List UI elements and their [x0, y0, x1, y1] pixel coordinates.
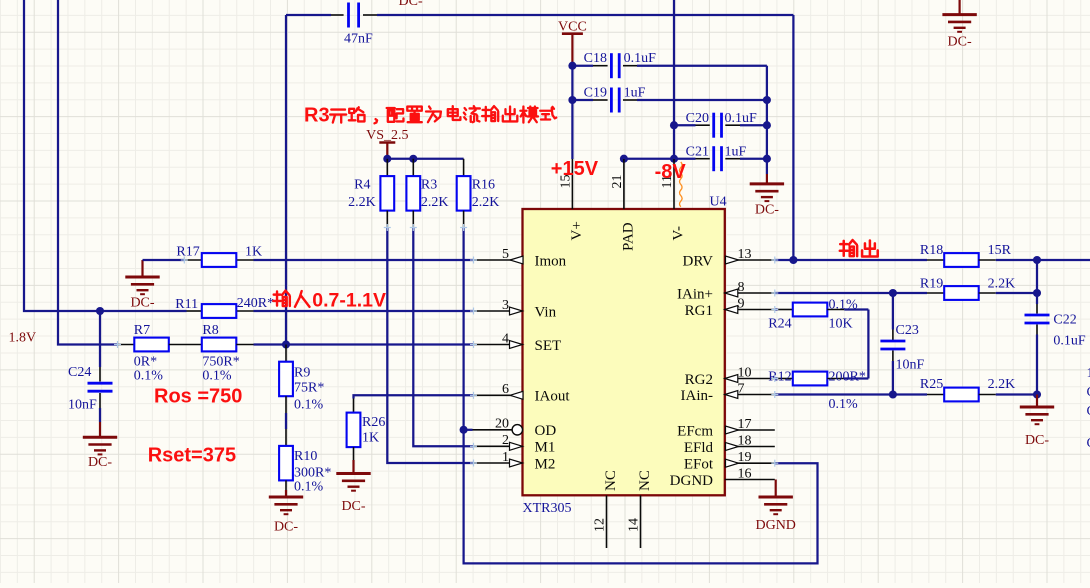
junction VS rail at R3	[409, 155, 417, 163]
ground DC- top right	[942, 0, 976, 50]
svg-text:DC-: DC-	[399, 0, 423, 9]
svg-text:R9: R9	[294, 366, 310, 381]
svg-text:1.8V: 1.8V	[9, 331, 37, 346]
svg-text:DC-: DC-	[755, 203, 779, 218]
svg-text:R19: R19	[920, 276, 943, 291]
svg-text:OD: OD	[535, 423, 557, 439]
svg-text:R26: R26	[362, 415, 385, 430]
svg-text:R16: R16	[472, 178, 495, 193]
annotation output	[840, 240, 878, 256]
annotation -8V	[655, 161, 687, 183]
svg-text:SET: SET	[535, 338, 562, 354]
resistor R7 0R* 0.1%	[118, 323, 202, 384]
wire R4 to M2 pin	[387, 228, 473, 464]
svg-text:9: 9	[738, 296, 745, 311]
wire top net from 47nF to output column	[286, 14, 793, 16]
svg-text:IAin-: IAin-	[681, 388, 714, 404]
pin 12 NC	[593, 470, 619, 548]
svg-text:C24: C24	[68, 365, 91, 380]
resistor R4 2.2K	[348, 159, 394, 228]
svg-text:IAout: IAout	[535, 389, 571, 405]
svg-text:240R*: 240R*	[237, 296, 274, 311]
ground DC- below C24	[83, 422, 117, 470]
svg-text:5: 5	[502, 247, 509, 262]
pin 16 DGND	[670, 466, 775, 489]
resistor R18 15R	[920, 243, 1012, 267]
svg-text:XTR305: XTR305	[523, 501, 572, 516]
annotation Ros	[154, 386, 242, 408]
svg-text:R25: R25	[920, 377, 943, 392]
svg-text:2.2K: 2.2K	[421, 195, 449, 210]
junction OD row	[460, 426, 468, 434]
junction at SET row and R9	[282, 340, 290, 348]
capacitor C18 0.1uF	[572, 51, 767, 78]
svg-text:+15V: +15V	[551, 158, 599, 180]
junction IAin- C23 R25	[889, 390, 897, 398]
junction C19 right	[763, 96, 771, 104]
svg-text:DC-: DC-	[1025, 433, 1049, 448]
svg-text:R24: R24	[768, 317, 791, 332]
svg-text:2: 2	[502, 433, 509, 448]
pin 13 DRV	[683, 247, 775, 270]
svg-text:C20: C20	[686, 111, 709, 126]
junction C20 left	[670, 121, 678, 129]
pin 10 RG2	[685, 365, 775, 388]
svg-text:V+: V+	[569, 221, 585, 240]
svg-text:200R*: 200R*	[829, 369, 866, 384]
wire Imon row to pin 5	[254, 259, 474, 261]
wire IAin+ row	[775, 292, 893, 294]
wire V+ supply vertical	[571, 66, 573, 159]
svg-text:0.7-1.1V: 0.7-1.1V	[312, 289, 386, 311]
svg-text:2.2K: 2.2K	[988, 377, 1016, 392]
junction C21 left V-	[670, 155, 678, 163]
pin 15 V+	[559, 159, 585, 241]
ground DC- below R10	[269, 490, 303, 535]
svg-text:U4: U4	[710, 195, 727, 210]
wire SET row to pin 4	[254, 343, 474, 345]
junction VS rail at R4	[383, 155, 391, 163]
svg-text:DC-: DC-	[274, 520, 298, 535]
pin 5 Imon	[474, 247, 567, 270]
svg-text:DGND: DGND	[755, 518, 795, 533]
wire V- vertical from top	[673, 0, 675, 159]
annotation input range	[273, 289, 386, 311]
svg-text:20: 20	[495, 417, 509, 432]
svg-text:0.1uF: 0.1uF	[725, 111, 758, 126]
svg-text:0.1%: 0.1%	[829, 298, 859, 313]
svg-text:C22: C22	[1053, 313, 1076, 328]
ground DGND	[755, 480, 795, 534]
svg-text:R11: R11	[175, 297, 198, 312]
pin 17 EFcm	[677, 417, 775, 440]
junction VCC C18	[568, 62, 576, 70]
pin 18 EFld	[684, 433, 775, 456]
resistor R8 750R* 0.1%	[202, 323, 254, 384]
ground DC- decoupling block	[750, 174, 784, 218]
svg-text:16: 16	[738, 466, 752, 481]
power port DC- (top center, clipped)	[399, 0, 423, 9]
svg-text:750R*: 750R*	[202, 355, 239, 370]
pin 19 EFot	[684, 450, 775, 473]
svg-text:0.1%: 0.1%	[294, 398, 324, 413]
svg-text:DC-: DC-	[88, 455, 112, 470]
pin end markers	[114, 224, 778, 467]
op-amp U4 XTR305 body	[523, 195, 727, 517]
error squiggle at V- pin	[680, 162, 683, 207]
capacitor C22 0.1uF	[1025, 260, 1086, 395]
svg-text:DC-: DC-	[341, 499, 365, 514]
svg-text:1: 1	[502, 450, 509, 465]
junction C21 PAD	[620, 155, 628, 163]
svg-text:PAD: PAD	[620, 222, 636, 251]
resistor R3 2.2K	[406, 159, 448, 228]
svg-text:R17: R17	[176, 244, 199, 259]
svg-text:C: C	[1087, 436, 1090, 451]
svg-text:V-: V-	[671, 226, 687, 240]
svg-text:R3: R3	[304, 105, 330, 127]
svg-text:RG2: RG2	[685, 372, 713, 388]
svg-text:Ros =750: Ros =750	[154, 386, 242, 408]
svg-text:1uF: 1uF	[624, 85, 646, 100]
resistor R9 75R* 0.1%	[279, 345, 324, 430]
capacitor C24 10nF	[68, 365, 113, 422]
svg-text:1K: 1K	[245, 244, 262, 259]
svg-text:C21: C21	[686, 144, 709, 159]
resistor R16 2.2K	[457, 159, 500, 228]
annotation R3 open-circuit note	[304, 105, 556, 127]
resistor R17 1K	[176, 244, 262, 267]
svg-text:C19: C19	[584, 85, 607, 100]
capacitor C1 47nF	[331, 3, 377, 47]
svg-text:10nF: 10nF	[68, 398, 97, 413]
svg-text:DGND: DGND	[670, 473, 713, 489]
wire left vertical 2 to R7 row	[58, 0, 118, 345]
svg-text:7: 7	[738, 381, 745, 396]
svg-text:IAin+: IAin+	[677, 286, 713, 302]
capacitor C21 1uF	[624, 144, 767, 171]
junction C19 V+	[568, 96, 576, 104]
svg-text:2.2K: 2.2K	[348, 195, 376, 210]
wire VS_2.5 rail	[387, 158, 463, 160]
junction C20 right	[763, 121, 771, 129]
pin 20 OD	[473, 417, 557, 440]
wire IAout row	[354, 395, 474, 398]
svg-text:47nF: 47nF	[344, 32, 373, 47]
junction DRV output column	[789, 256, 797, 264]
svg-text:M1: M1	[535, 440, 556, 456]
wire IAin- row	[775, 393, 927, 395]
svg-text:12: 12	[593, 518, 608, 532]
svg-text:3: 3	[502, 298, 509, 313]
svg-text:R8: R8	[202, 323, 218, 338]
svg-text:R12: R12	[768, 369, 791, 384]
ground DC- right	[1020, 395, 1054, 449]
capacitor C23 10nF	[880, 293, 924, 395]
pin 14 NC	[627, 470, 653, 548]
svg-text:DC-: DC-	[948, 35, 972, 50]
wire output to right edge	[996, 259, 1090, 261]
svg-text:EFld: EFld	[684, 440, 714, 456]
svg-text:0.1%: 0.1%	[134, 369, 164, 384]
svg-text:M2: M2	[535, 456, 556, 472]
resistor R11 240R*	[175, 296, 274, 318]
wire R16 to OD pin and EFot loop	[464, 228, 818, 564]
svg-text:2.2K: 2.2K	[988, 276, 1016, 291]
resistor R26 1K	[347, 399, 386, 461]
svg-text:0R*: 0R*	[134, 355, 157, 370]
junction output R19 column	[1033, 256, 1041, 264]
wire 47nF-net vertical to SET junction	[285, 15, 287, 345]
svg-text:1: 1	[1087, 366, 1090, 381]
resistor R19 2.2K	[893, 276, 1037, 300]
svg-text:VCC: VCC	[558, 20, 587, 35]
svg-text:14: 14	[627, 518, 642, 532]
svg-text:R10: R10	[294, 449, 317, 464]
svg-text:R7: R7	[134, 323, 150, 338]
svg-text:C: C	[1087, 385, 1090, 400]
svg-text:C18: C18	[584, 51, 607, 66]
wire R24 R12 link	[867, 310, 869, 379]
svg-text:C: C	[1087, 404, 1090, 419]
pin 6 IAout	[474, 382, 571, 405]
clipped text fragments right edge	[1087, 366, 1090, 451]
svg-text:0.1uF: 0.1uF	[1053, 334, 1086, 349]
svg-text:2.2K: 2.2K	[472, 195, 500, 210]
svg-text:6: 6	[502, 382, 509, 397]
resistor R10 300R* 0.1%	[279, 429, 331, 495]
junction C21 right	[763, 155, 771, 163]
junction R19 C22	[1033, 289, 1041, 297]
svg-text:R3: R3	[421, 178, 437, 193]
svg-text:1uF: 1uF	[725, 144, 747, 159]
pin 7 IAin-	[681, 381, 775, 404]
wire DRV row	[775, 259, 927, 261]
svg-text:0.1%: 0.1%	[294, 480, 324, 495]
pin 8 IAin+	[677, 280, 775, 303]
capacitor C19 1uF	[572, 85, 767, 112]
wire OD row stub	[464, 429, 473, 431]
svg-text:75R*: 75R*	[294, 381, 324, 396]
resistor R24 10K 0.1%	[768, 298, 868, 332]
svg-text:15R: 15R	[988, 243, 1012, 258]
svg-text:18: 18	[738, 433, 752, 448]
svg-text:0.1uF: 0.1uF	[624, 51, 657, 66]
svg-text:10K: 10K	[829, 317, 853, 332]
pin 3 Vin	[474, 298, 557, 321]
svg-text:19: 19	[738, 450, 752, 465]
svg-text:EFcm: EFcm	[677, 423, 713, 439]
power port VCC	[558, 20, 587, 66]
power port VS_2.5	[366, 128, 408, 159]
svg-text:21: 21	[610, 175, 625, 189]
svg-text:C23: C23	[896, 323, 919, 338]
junction at R11 row and C24 branch	[96, 307, 104, 315]
svg-text:10nF: 10nF	[896, 358, 925, 373]
svg-text:NC: NC	[637, 470, 653, 491]
svg-text:NC: NC	[603, 470, 619, 491]
svg-text:0.1%: 0.1%	[202, 369, 232, 384]
svg-text:DRV: DRV	[683, 253, 714, 269]
wire left vertical 1 to R11 row	[24, 0, 187, 311]
svg-text:R4: R4	[354, 178, 370, 193]
svg-text:DC-: DC-	[130, 296, 154, 311]
resistor R25 2.2K	[920, 377, 1037, 402]
svg-text:VS_2.5: VS_2.5	[366, 128, 408, 143]
pin 2 M1	[474, 433, 556, 456]
svg-text:1K: 1K	[362, 431, 379, 446]
svg-text:EFot: EFot	[684, 457, 714, 473]
wire R3 to M1 pin	[413, 228, 473, 447]
svg-text:17: 17	[738, 417, 752, 432]
svg-text:0.1%: 0.1%	[829, 397, 859, 412]
pin 4 SET	[474, 331, 562, 354]
annotation +15V	[551, 158, 599, 180]
junction IAin+ C23 R19	[889, 289, 897, 297]
pin 1 M2	[474, 450, 556, 473]
wire decoupling right vertical	[766, 66, 768, 174]
svg-text:300R*: 300R*	[294, 466, 331, 481]
ground DC- below R26	[336, 460, 370, 514]
svg-text:Rset=375: Rset=375	[148, 445, 236, 467]
pin 11 V-	[660, 159, 686, 241]
wire Imon row left segment	[143, 259, 185, 261]
junction R25 C22 ground	[1033, 390, 1041, 398]
svg-text:Vin: Vin	[535, 304, 557, 320]
svg-text:-8V: -8V	[655, 161, 687, 183]
net label 1.8V	[9, 331, 37, 346]
svg-text:Imon: Imon	[535, 253, 567, 269]
resistor R12 200R* 0.1%	[768, 369, 868, 412]
wire Vin row to pin 3	[254, 310, 474, 312]
svg-text:10: 10	[738, 365, 752, 380]
svg-text:R18: R18	[920, 243, 943, 258]
svg-text:13: 13	[738, 247, 752, 262]
svg-text:4: 4	[502, 331, 509, 346]
svg-text:8: 8	[738, 280, 745, 295]
svg-text:RG1: RG1	[685, 303, 713, 319]
wire C24 branch vertical	[99, 311, 101, 382]
pin 9 RG1	[685, 296, 775, 319]
capacitor C20 0.1uF	[674, 111, 767, 138]
pin 21 PAD	[610, 159, 636, 251]
ground DC- left of R17	[125, 260, 159, 311]
annotation Rset	[148, 445, 236, 467]
wire output column vertical	[792, 15, 794, 260]
